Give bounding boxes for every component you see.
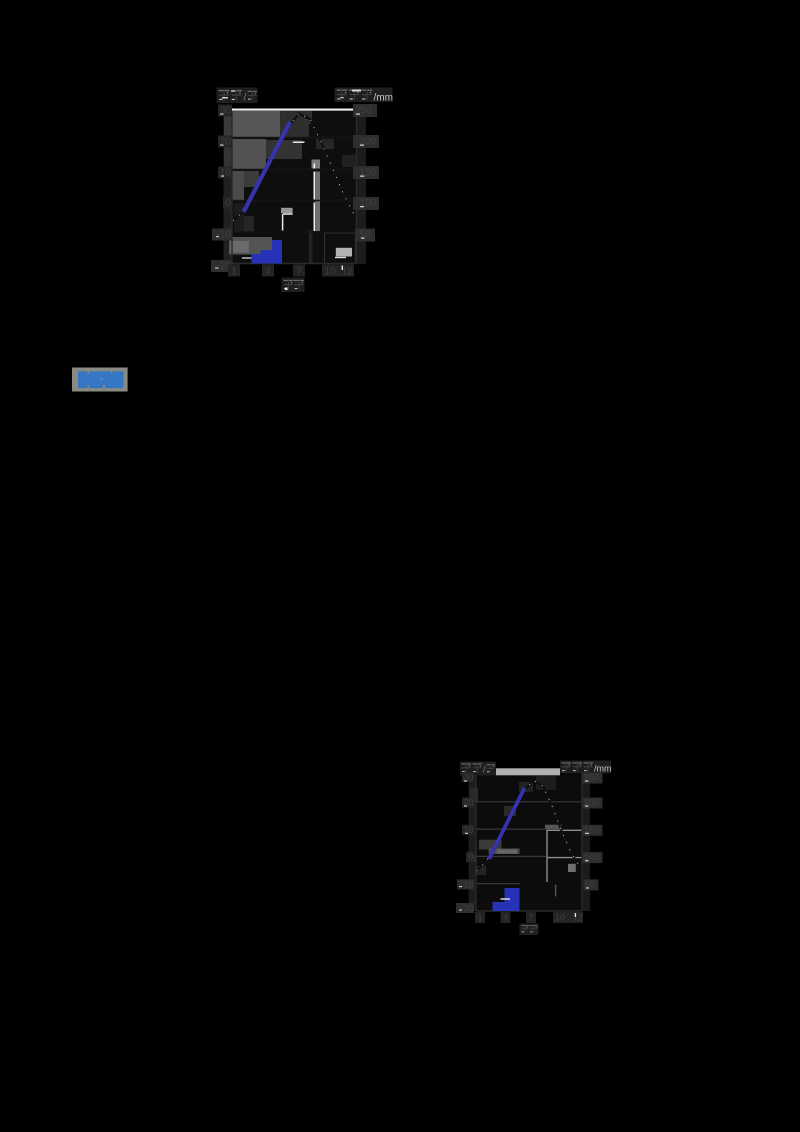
chart2 left axis labels bbox=[456, 772, 474, 913]
svg-text:0: 0 bbox=[225, 198, 231, 209]
svg-text:200: 200 bbox=[360, 137, 377, 148]
chart2 bright stroke of 12 bbox=[575, 913, 576, 917]
chart1 axis title left (气温/℃) bbox=[217, 88, 258, 104]
chart1 white vertical bar edge bbox=[313, 164, 315, 232]
svg-text:150: 150 bbox=[360, 168, 377, 179]
svg-text:-10: -10 bbox=[460, 879, 473, 889]
chart1 month tick labels bbox=[228, 265, 354, 278]
chart1 precipitation bars (blue) bbox=[252, 240, 283, 264]
svg-text:10: 10 bbox=[555, 913, 565, 923]
chart1 white dash beside bars bbox=[242, 257, 252, 259]
chart2 axes bbox=[476, 766, 582, 911]
svg-text:1: 1 bbox=[477, 913, 482, 923]
chart1 temperature curve blue segment bbox=[244, 122, 291, 212]
chart2 white dash inside bar bbox=[501, 898, 511, 900]
chart1 right label speckles bbox=[356, 114, 365, 239]
chart2 temperature curve (dark with white speckles) bbox=[477, 781, 582, 871]
svg-text:30: 30 bbox=[220, 106, 232, 117]
chart1 bright top gridline bbox=[232, 109, 357, 111]
svg-text:10: 10 bbox=[220, 168, 232, 179]
svg-text:/: / bbox=[244, 93, 247, 104]
chart2 right label speckles bbox=[585, 781, 589, 889]
chart1 axes bbox=[232, 108, 357, 264]
svg-text:1: 1 bbox=[231, 267, 237, 278]
chart1 peak halo patch bbox=[285, 112, 311, 125]
chart2 precipitation bars (blue) bbox=[493, 888, 520, 911]
answer text blob (【答案】 blue) bbox=[78, 371, 124, 388]
svg-text:-10: -10 bbox=[217, 230, 232, 241]
chart2 bright gridline segments right bbox=[547, 830, 582, 857]
svg-text:4: 4 bbox=[265, 267, 271, 278]
chart2 right axis labels bbox=[583, 773, 603, 891]
svg-text:0: 0 bbox=[468, 852, 473, 862]
chart1 right axis labels bbox=[353, 104, 379, 242]
chart1 x axis title (月份) bbox=[282, 278, 305, 293]
chart1 axis title right (降水量/mm) bbox=[335, 88, 393, 104]
chart2 plot background gray patches bbox=[469, 768, 591, 911]
svg-text:4: 4 bbox=[503, 913, 508, 923]
svg-text:12: 12 bbox=[573, 913, 583, 923]
svg-text:7: 7 bbox=[528, 913, 533, 923]
answer highlight box bbox=[72, 368, 128, 392]
chart2 x axis title (月份) bbox=[520, 924, 539, 936]
svg-text:250: 250 bbox=[355, 106, 372, 117]
chart1 white dash under peak bbox=[293, 141, 305, 143]
chart1 plot background gray patches bbox=[224, 110, 367, 264]
chart2 bright vertical bar edge bbox=[546, 830, 548, 882]
chart1 white dash under gray bar bbox=[335, 257, 346, 259]
svg-text:/mm: /mm bbox=[374, 93, 393, 104]
svg-text:10: 10 bbox=[324, 267, 336, 278]
svg-text:10: 10 bbox=[463, 825, 473, 835]
chart2 left label speckles bbox=[459, 781, 468, 911]
svg-text:20: 20 bbox=[220, 137, 232, 148]
chart2 horizontal gridlines bbox=[476, 802, 582, 884]
svg-text:100: 100 bbox=[360, 198, 377, 209]
chart1 left label speckles bbox=[215, 114, 224, 269]
chart1 temperature curve (dark with white speckles) bbox=[233, 114, 354, 221]
chart1 bar outline rectangle (months 9-12) bbox=[325, 233, 356, 264]
chart2 temperature curve blue segment bbox=[489, 788, 525, 859]
chart1 white L marker (june bar) bbox=[283, 214, 293, 231]
chart2 axis title left (气温/℃) bbox=[460, 762, 496, 776]
svg-text:7: 7 bbox=[296, 267, 302, 278]
svg-text:-20: -20 bbox=[460, 903, 473, 913]
chart1 bright stroke of 12 bbox=[342, 266, 343, 271]
svg-text:50: 50 bbox=[360, 230, 372, 241]
chart1 left axis labels bbox=[211, 105, 232, 273]
chart1 horizontal gridlines bbox=[232, 138, 357, 233]
chart2 axis title right (降水量/mm) bbox=[560, 761, 612, 774]
svg-text:12: 12 bbox=[341, 267, 353, 278]
chart2 month tick labels bbox=[475, 912, 583, 923]
